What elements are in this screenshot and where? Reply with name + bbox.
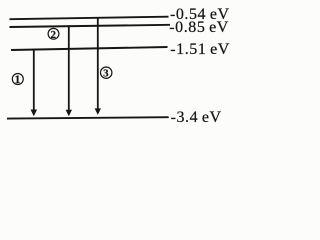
- transition arrow 3 shaft: [97, 17, 99, 109]
- transition arrow 1 head: [31, 110, 38, 117]
- circled label 2: [48, 28, 59, 39]
- transition arrow 3 head: [95, 108, 101, 115]
- transition arrow 1 shaft: [33, 49, 35, 110]
- svg-text:-3.4 eV: -3.4 eV: [171, 109, 222, 124]
- energy level line -1.51 eV (n=3): [11, 47, 168, 50]
- transition arrow 2 shaft: [68, 25, 70, 110]
- energy level line -0.54 eV (n=5): [10, 17, 169, 20]
- svg-text:-0.85 eV: -0.85 eV: [169, 19, 229, 36]
- energy level line -3.4 eV (n=2): [7, 117, 169, 118]
- transition arrow 2 head: [66, 110, 72, 117]
- energy level line -0.85 eV (n=4): [10, 25, 171, 27]
- circled label 1: [12, 74, 23, 85]
- circled label 3: [101, 67, 112, 78]
- svg-text:-1.51 eV: -1.51 eV: [170, 41, 230, 58]
- svg-text:1: 1: [15, 74, 21, 86]
- svg-text:2: 2: [50, 29, 56, 41]
- svg-text:3: 3: [103, 68, 109, 80]
